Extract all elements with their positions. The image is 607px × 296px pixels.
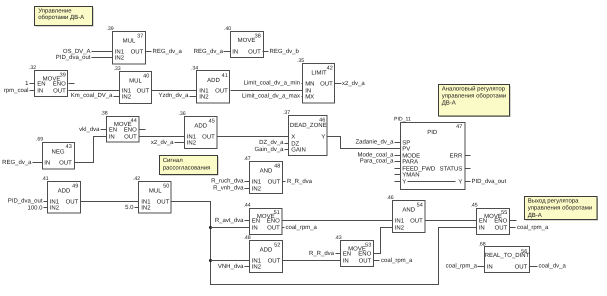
svg-text:ADD: ADD [58, 188, 71, 195]
svg-text:IN2: IN2 [395, 225, 405, 232]
svg-text:IN: IN [343, 258, 349, 265]
svg-text:AND: AND [260, 168, 273, 175]
input label R_avt_dva to MOVE51.EN [215, 217, 250, 224]
svg-text:5.0: 5.0 [125, 204, 134, 211]
svg-text:IN1: IN1 [187, 134, 197, 141]
output label coal_rpm_a from MOVE51.OUT [283, 224, 318, 231]
svg-text:PV: PV [402, 146, 410, 153]
svg-text:41: 41 [222, 73, 228, 79]
svg-text:IN1: IN1 [115, 49, 125, 56]
conversion block REAL_TO_DINT 56 (id .68) [478, 242, 529, 273]
svg-text:IN: IN [479, 225, 485, 232]
svg-text:AND: AND [402, 207, 415, 214]
svg-text:IN1: IN1 [252, 258, 262, 265]
comment: Выход регулятора управления оборотами ДВ-А [525, 197, 599, 221]
svg-text:Выход регулятора: Выход регулятора [528, 197, 579, 204]
svg-text:NEG: NEG [51, 148, 64, 155]
svg-text:ERR: ERR [450, 153, 463, 160]
svg-text:OUT: OUT [215, 88, 228, 95]
svg-text:DZ_dv_a: DZ_dv_a [259, 139, 284, 146]
svg-text:PID_dva_out: PID_dva_out [56, 54, 91, 61]
svg-text:ADD: ADD [260, 247, 273, 254]
input label DZ_dv_a to DEAD_ZONE46.DZ [259, 139, 288, 146]
adder block ADD 52 (id .48) [243, 235, 282, 272]
svg-text:FEED_FWD: FEED_FWD [402, 166, 436, 173]
limiter block LIMIT 42 (id .35) [297, 58, 335, 103]
svg-text:53: 53 [365, 243, 371, 249]
wire MOVE53.ENO up to AND54.IN2 [374, 228, 393, 254]
move block MOVE 51 (id .44) [243, 203, 282, 235]
svg-text:Mode_coal_a: Mode_coal_a [357, 151, 394, 158]
wire MUL40.OUT to ADD41.IN1 [152, 90, 197, 92]
svg-text:.68: .68 [478, 242, 485, 248]
svg-text:.48: .48 [243, 235, 250, 241]
input label Mode_coal_a to PID47.MODE [357, 151, 400, 158]
input label Limit_coal_dv_a_min to LIMIT42.MN [244, 80, 303, 87]
svg-text:R_R_dva: R_R_dva [287, 178, 313, 185]
svg-text:IN2: IN2 [187, 140, 197, 147]
unconnected stub PID47.Y left [395, 181, 401, 183]
move block MOVE 38 (id .40) [224, 26, 264, 57]
svg-text:49: 49 [72, 184, 78, 190]
comment: Управление оборотами ДВ-А [35, 7, 94, 27]
svg-text:ДВ-А: ДВ-А [528, 212, 542, 219]
ENO stub of MOVE55 [510, 220, 517, 222]
svg-text:OUT: OUT [137, 88, 150, 95]
wire MOVE44.OUT to ADD45.IN1 [139, 136, 185, 138]
svg-text:EN: EN [109, 127, 117, 134]
svg-text:rpm_coal: rpm_coal [4, 87, 29, 94]
input label 1 to MOVE39.EN [25, 80, 34, 87]
svg-text:IN2: IN2 [115, 55, 125, 62]
svg-text:IN2: IN2 [141, 205, 151, 212]
input label R_vnh_dva to AND48.IN2 [213, 185, 249, 192]
svg-text:IN2: IN2 [252, 186, 262, 193]
svg-text:Limit_coal_dv_a_max: Limit_coal_dv_a_max [242, 93, 300, 100]
svg-text:LIMIT: LIMIT [311, 70, 327, 77]
svg-text:OUT: OUT [410, 218, 423, 225]
svg-text:43: 43 [66, 144, 72, 150]
svg-text:IN1: IN1 [50, 199, 60, 206]
input label x2_dv_a to ADD45.IN2 [151, 139, 185, 146]
svg-text:IN: IN [37, 88, 43, 95]
adder block ADD 45 (id .36) [178, 111, 217, 148]
wire rail to ADD52.IN1 [211, 260, 250, 262]
input label Gain_dv_a to DEAD_ZONE46.GAIN [254, 146, 288, 153]
comment: Сигнал рассогласования [160, 156, 219, 176]
svg-text:IN1: IN1 [122, 88, 132, 95]
svg-text:x2_dv_a: x2_dv_a [342, 80, 365, 87]
svg-text:STATUS: STATUS [440, 166, 463, 173]
svg-text:OUT: OUT [359, 258, 372, 265]
wire ADD52.OUT to MOVE53.IN [283, 260, 341, 262]
svg-text:OUT: OUT [53, 88, 66, 95]
svg-text:MUL: MUL [123, 38, 136, 45]
svg-text:coal_rpm_a: coal_rpm_a [517, 224, 549, 231]
svg-text:OUT: OUT [267, 225, 280, 232]
svg-text:ДВ-А: ДВ-А [442, 100, 456, 107]
output label REG_dv_b from MOVE38.OUT [263, 48, 300, 55]
svg-text:coal_rpm_a: coal_rpm_a [286, 224, 318, 231]
svg-text:IN: IN [232, 49, 238, 56]
input label REG_dv_a to NEG43.IN [2, 159, 42, 166]
svg-text:YMAN: YMAN [402, 172, 419, 179]
svg-text:MX: MX [305, 94, 314, 101]
svg-text:37: 37 [137, 34, 143, 40]
input label Zadanie_dv_a to PID47.SP [355, 138, 400, 145]
svg-text:x2_dv_a: x2_dv_a [151, 139, 174, 146]
svg-text:.43: .43 [334, 235, 341, 241]
output label REG_dv_a from MUL37.OUT [146, 48, 183, 55]
input label 100.0 to ADD49.IN2 [27, 205, 47, 212]
svg-text:Аналоговый регулятор: Аналоговый регулятор [442, 86, 506, 93]
input label OS_DV_A to MUL37.IN1 [63, 48, 113, 55]
svg-text:42: 42 [327, 66, 333, 72]
svg-text:ENO: ENO [494, 218, 507, 225]
svg-text:.69: .69 [36, 137, 43, 143]
svg-text:OUT: OUT [59, 160, 72, 167]
dead-zone block DEAD_ZONE 46 (id .37) [283, 110, 327, 155]
svg-text:OUT: OUT [66, 199, 79, 206]
svg-text:50: 50 [163, 184, 169, 190]
svg-text:39: 39 [60, 73, 66, 79]
svg-text:OUT: OUT [495, 225, 508, 232]
svg-text:ENO: ENO [358, 251, 371, 258]
adder block ADD 41 (id .34) [191, 66, 230, 103]
svg-text:REG_dv_a: REG_dv_a [153, 48, 183, 55]
svg-text:ADD: ADD [207, 77, 220, 84]
svg-text:OUT: OUT [202, 134, 215, 141]
svg-text:PID: PID [427, 129, 438, 136]
svg-text:ENO: ENO [267, 218, 280, 225]
wire MUL50.OUT down the rail and along the bottom to MOVE55.IN [172, 202, 477, 285]
svg-text:Para_coal_a: Para_coal_a [360, 157, 394, 164]
svg-text:OS_DV_A: OS_DV_A [63, 48, 91, 55]
svg-text:.40: .40 [224, 26, 231, 32]
wire rail to MOVE51.IN [211, 227, 250, 229]
multiplier block MUL 50 (id .42) [133, 176, 171, 213]
ENO stub of MOVE39 [69, 83, 75, 85]
and block AND 54 (id .46) [386, 195, 425, 232]
svg-text:MOVE: MOVE [238, 37, 256, 44]
svg-text:.42: .42 [133, 176, 140, 182]
svg-text:PID_11: PID_11 [394, 117, 411, 123]
unconnected stub PID47.STATUS [465, 168, 471, 170]
svg-text:ENO: ENO [124, 127, 137, 134]
svg-text:.37: .37 [283, 110, 290, 116]
svg-text:IN1: IN1 [199, 88, 209, 95]
input label PID_dva_out to MUL37.IN2 [56, 54, 113, 61]
svg-text:Y: Y [321, 134, 325, 141]
svg-text:R_R_dva: R_R_dva [309, 250, 335, 257]
output label coal_rpm_a from MOVE53.OUT [374, 257, 414, 264]
svg-text:.45: .45 [470, 203, 477, 209]
svg-text:IN2: IN2 [50, 205, 60, 212]
svg-text:Km_coal_DV_a: Km_coal_DV_a [71, 92, 113, 99]
svg-text:управления оборотами: управления оборотами [528, 205, 593, 212]
svg-text:OUT: OUT [320, 81, 333, 88]
svg-text:X: X [291, 134, 295, 141]
svg-text:OUT: OUT [515, 264, 528, 271]
svg-text:IN1: IN1 [141, 199, 151, 206]
output label x2_dv_a from LIMIT42.OUT [335, 80, 366, 87]
svg-text:DEAD_ZONE: DEAD_ZONE [290, 122, 327, 129]
svg-text:45: 45 [209, 119, 215, 125]
svg-text:IN2: IN2 [199, 94, 209, 101]
svg-text:54: 54 [417, 203, 423, 209]
svg-text:REG_dv_a: REG_dv_a [194, 48, 224, 55]
svg-text:.35: .35 [297, 58, 304, 64]
svg-text:MN: MN [305, 81, 314, 88]
svg-text:Yzdn_dv_a: Yzdn_dv_a [158, 92, 189, 99]
junction on rail to ADD52.IN1 [209, 259, 212, 262]
unconnected stub PID47.FEED_FWD [395, 168, 401, 170]
wire ADD45.OUT to DEAD_ZONE46.X [217, 136, 289, 138]
svg-text:Сигнал: Сигнал [163, 157, 184, 164]
svg-text:OUT: OUT [268, 258, 281, 265]
input label Yzdn_dv_a to ADD41.IN2 [158, 92, 196, 99]
output label PID_dva_out from PID47.Y [465, 178, 507, 185]
junction on rail to MOVE51.IN [209, 226, 212, 229]
svg-text:ADD: ADD [194, 123, 207, 130]
output label coal_dv_a from REAL_TO_DINT56.OUT [530, 262, 567, 269]
svg-text:48: 48 [274, 164, 280, 170]
wire DEAD_ZONE46.Y to PID47.PV [328, 137, 401, 149]
svg-text:coal_rpm_a: coal_rpm_a [446, 262, 478, 269]
svg-text:51: 51 [274, 210, 280, 216]
svg-text:REAL_TO_DINT: REAL_TO_DINT [485, 252, 530, 259]
input label Para_coal_a to PID47.PARA [360, 157, 401, 164]
svg-text:REG_dv_a: REG_dv_a [2, 159, 32, 166]
svg-text:рассогласования: рассогласования [163, 165, 211, 171]
svg-text:PARA: PARA [402, 159, 418, 166]
svg-text:IN2: IN2 [122, 94, 132, 101]
svg-text:EN: EN [479, 218, 487, 225]
svg-text:MUL: MUL [149, 188, 162, 195]
wire NEG43.OUT to MOVE44.IN [75, 137, 107, 163]
svg-text:PID_dva_out: PID_dva_out [8, 197, 43, 204]
svg-text:Limit_coal_dv_a_min: Limit_coal_dv_a_min [244, 80, 300, 87]
svg-text:Zadanie_dv_a: Zadanie_dv_a [355, 138, 394, 145]
svg-text:DZ: DZ [291, 141, 299, 148]
adder block ADD 49 (id .41) [41, 176, 80, 213]
and block AND 48 (id .47) [243, 156, 282, 193]
svg-text:47: 47 [456, 124, 462, 130]
svg-text:coal_dv_a: coal_dv_a [539, 262, 567, 269]
wire MOVE51.ENO to AND54.IN1 [283, 220, 393, 222]
move block MOVE 39 (id .32) [29, 65, 68, 96]
svg-text:IN: IN [44, 160, 50, 167]
input label 5.0 to MUL50.IN2 [125, 204, 138, 211]
svg-text:.34: .34 [191, 66, 198, 72]
input label rpm_coal to MOVE39.IN [4, 87, 35, 94]
svg-text:.32: .32 [29, 65, 36, 71]
wire AND54.OUT to MOVE55.EN [425, 220, 477, 222]
svg-text:.46: .46 [386, 195, 393, 201]
svg-text:OUT: OUT [268, 179, 281, 186]
svg-text:Y: Y [458, 179, 462, 186]
svg-text:vkl_dva: vkl_dva [79, 126, 100, 133]
wire MOVE39.OUT to MUL40.IN1 [69, 90, 120, 92]
ENO stub of MOVE44 [139, 129, 146, 131]
svg-text:IN2: IN2 [252, 264, 262, 271]
svg-text:EN: EN [37, 81, 45, 88]
svg-text:38: 38 [255, 34, 261, 40]
svg-text:52: 52 [274, 243, 280, 249]
svg-text:EN: EN [343, 251, 351, 258]
comment: Аналоговый регулятор управления оборотами ДВ-А [439, 85, 511, 118]
input label PID_dva_out to ADD49.IN1 [8, 197, 48, 204]
svg-text:OUT: OUT [157, 199, 170, 206]
svg-text:SP: SP [402, 140, 410, 147]
svg-text:IN: IN [252, 225, 258, 232]
svg-text:EN: EN [252, 218, 260, 225]
svg-text:R_vnh_dva: R_vnh_dva [213, 185, 244, 192]
svg-text:GAIN: GAIN [291, 147, 306, 154]
svg-text:.44: .44 [243, 203, 250, 209]
input label REG_dv_a to MOVE38.IN [194, 48, 231, 55]
PID controller block PID 47 (id PID_11) [401, 123, 466, 190]
svg-text:Y: Y [402, 179, 406, 186]
input label R_ruch_dva to AND48.IN1 [211, 178, 249, 185]
svg-text:PID_dva_out: PID_dva_out [472, 178, 507, 185]
svg-text:55: 55 [501, 210, 507, 216]
svg-text:.38: .38 [100, 111, 107, 117]
input label R_R_dva to MOVE53.EN [309, 250, 341, 257]
wire ADD49.OUT to MUL50.IN1 [81, 201, 139, 203]
svg-text:управления оборотами: управления оборотами [442, 93, 507, 100]
multiplier block MUL 40 (id .33) [113, 66, 151, 103]
svg-text:100.0: 100.0 [27, 205, 43, 212]
svg-text:OUT: OUT [124, 134, 137, 141]
svg-text:.47: .47 [243, 156, 250, 162]
svg-text:OUT: OUT [248, 49, 261, 56]
svg-text:REG_dv_b: REG_dv_b [270, 48, 300, 55]
svg-text:.33: .33 [113, 66, 120, 72]
svg-text:IN1: IN1 [395, 218, 405, 225]
input label Km_coal_DV_a to MUL40.IN2 [71, 92, 120, 99]
input label Limit_coal_dv_a_max to LIMIT42.MX [242, 93, 303, 100]
svg-text:.41: .41 [41, 176, 48, 182]
svg-text:IN: IN [109, 134, 115, 141]
negation block NEG 43 (id .69) [36, 137, 75, 169]
move block MOVE 55 (id .45) [470, 203, 509, 235]
svg-text:coal_rpm_a: coal_rpm_a [381, 257, 413, 264]
svg-text:IN: IN [305, 88, 311, 95]
input label coal_rpm_a to REAL_TO_DINT56.IN [446, 262, 485, 269]
svg-text:IN1: IN1 [252, 179, 262, 186]
svg-text:MUL: MUL [129, 78, 142, 85]
output label coal_rpm_a from MOVE55.OUT [510, 224, 550, 231]
svg-text:ENO: ENO [53, 81, 66, 88]
output label R_R_dva from AND48.OUT [283, 178, 313, 185]
input label VNH_dva to ADD52.IN2 [218, 263, 250, 270]
svg-text:40: 40 [143, 74, 149, 80]
wire ADD41.OUT to LIMIT42.IN [231, 90, 303, 92]
svg-text:Управление: Управление [38, 8, 72, 15]
svg-text:R_avt_dva: R_avt_dva [215, 217, 244, 224]
svg-text:IN: IN [487, 264, 493, 271]
unconnected stub PID47.YMAN [395, 174, 401, 176]
move block MOVE 44 (id .38) [100, 111, 139, 142]
input label vkl_dva to MOVE44.EN [79, 126, 106, 133]
PID internal Y line [408, 181, 456, 183]
svg-text:оборотами ДВ-А: оборотами ДВ-А [38, 14, 84, 21]
move block MOVE 53 (id .43) [334, 235, 373, 266]
svg-text:MODE: MODE [402, 153, 420, 160]
svg-text:OUT: OUT [131, 49, 144, 56]
svg-text:.36: .36 [178, 111, 185, 117]
svg-text:R_ruch_dva: R_ruch_dva [211, 178, 244, 185]
svg-text:Gain_dv_a: Gain_dv_a [254, 146, 284, 153]
multiplier block MUL 37 (id .39) [106, 26, 145, 64]
svg-text:.39: .39 [106, 26, 113, 32]
svg-text:VNH_dva: VNH_dva [218, 263, 244, 270]
unconnected stub PID47.ERR [465, 155, 471, 157]
svg-text:44: 44 [131, 118, 137, 124]
